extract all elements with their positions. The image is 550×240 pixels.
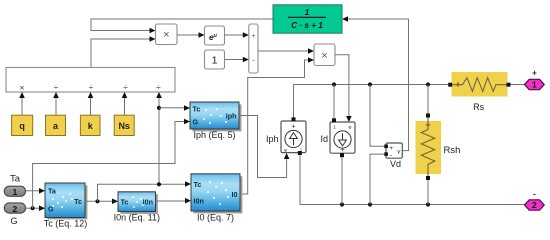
wire: k to divide port 3: [90, 98, 92, 116]
svg-text:÷: ÷: [89, 83, 94, 92]
top bus wire (positive node): [294, 85, 449, 118]
svg-text:Tc: Tc: [194, 180, 202, 189]
bottom bus wire (negative node): [300, 155, 525, 204]
label Tc (Eq. 12): [44, 219, 88, 229]
arrowhead into X1 input 2: [150, 36, 156, 42]
junction node Tc output: [95, 199, 99, 203]
input port 1 (Ta): [4, 186, 25, 197]
label Id: [320, 134, 328, 144]
arrowhead left into transfer function: [342, 16, 348, 22]
arrowhead into sum +: [243, 32, 249, 38]
wire: I0n output to I0 block I0n input: [156, 200, 186, 202]
svg-text:×: ×: [20, 82, 25, 92]
svg-text:I0n: I0n: [143, 198, 153, 207]
subsystem block I0n (Eq. 11): [118, 192, 158, 214]
controlled current source Id: [330, 118, 355, 157]
resistor block Rsh: [416, 114, 442, 181]
arrowhead up into divide port 2: [53, 92, 59, 98]
arrowhead up into divide port 5: [156, 92, 162, 98]
wire: Rsh bottom terminal down to bus: [427, 180, 429, 205]
svg-text:Rs: Rs: [473, 102, 484, 112]
wire: bus down to Id + terminal: [333, 85, 335, 119]
label I0 (Eq. 7): [197, 212, 234, 222]
label G: [10, 216, 17, 226]
product block X1: [156, 24, 178, 45]
svg-text:C · s + 1: C · s + 1: [291, 21, 323, 30]
svg-text:Rsh: Rsh: [444, 145, 461, 156]
sum block (+ -): [249, 24, 258, 73]
arrowhead into X1 input 1: [150, 28, 156, 34]
wire: sum output to product X2 input 1: [258, 50, 309, 52]
svg-text:1: 1: [212, 55, 218, 67]
svg-text:Iph (Eq. 5): Iph (Eq. 5): [193, 130, 235, 140]
arrowhead up into divide port 1: [19, 92, 25, 98]
arrowhead into Iph G input: [184, 119, 190, 125]
arrowhead up into Iph source signal port: [284, 153, 290, 159]
svg-text:2: 2: [532, 200, 537, 210]
svg-text:1: 1: [305, 7, 310, 17]
wire: Rs to output port 1: [511, 84, 525, 86]
wire: I0 block output up to product X2 input 2: [240, 60, 309, 194]
svg-text:+: +: [532, 69, 537, 78]
label Vd: [390, 159, 401, 169]
svg-text:1: 1: [13, 187, 18, 197]
arrowhead into sum -: [243, 57, 249, 63]
arrowhead into Tc G input: [39, 205, 45, 211]
arrowhead up into divide port 4: [122, 92, 128, 98]
svg-text:Tc: Tc: [193, 105, 201, 114]
svg-text:I0n: I0n: [194, 197, 204, 206]
svg-text:÷: ÷: [156, 83, 161, 92]
wire: bus down to Rsh top terminal: [427, 85, 429, 114]
subsystem block Tc (Eq. 12): [45, 183, 87, 219]
arrowhead into X2 input 2: [308, 57, 314, 63]
arrowhead down into Id signal port: [346, 116, 352, 122]
svg-text:+: +: [340, 147, 344, 154]
constant block q: [12, 115, 33, 135]
controlled current source Iph: [281, 117, 306, 155]
constant block a: [46, 115, 66, 135]
svg-text:2: 2: [13, 204, 18, 214]
arrowhead into X2 input 1: [308, 48, 314, 54]
wire: X2 output down to Id source signal input: [335, 55, 349, 117]
wire: a to divide port 2: [55, 98, 57, 116]
wire: bus down to Vd + input: [370, 85, 384, 147]
junction node Rsh bottom: [426, 202, 430, 206]
svg-text:×: ×: [163, 29, 169, 41]
svg-text:1: 1: [532, 80, 537, 90]
junction node Vd minus: [368, 202, 372, 206]
output port 1 (+): [525, 79, 545, 89]
wire: Id - terminal down to bus: [341, 157, 343, 204]
wire: exp to sum + input: [225, 34, 244, 36]
svg-text:I0: I0: [232, 190, 238, 199]
svg-text:Vd: Vd: [390, 159, 401, 169]
wire: Ns to divide port 4: [124, 98, 126, 116]
voltage sensor Vd: [384, 143, 402, 159]
junction node G: [30, 206, 34, 210]
input port 2 (G): [4, 203, 25, 214]
wire: Tc net vertical to divide port 5 and Iph Tc input: [158, 98, 160, 185]
wire: port 1 to Tc block Ta input: [26, 190, 40, 192]
wire: bus up to Vd - input: [370, 154, 384, 204]
svg-text:Ta: Ta: [48, 187, 57, 196]
wire: q to divide port 1: [21, 98, 23, 116]
product block X2: [314, 44, 335, 66]
math function block exp e^u: [205, 26, 225, 45]
junction node Id top: [332, 82, 336, 86]
wire: port 2 to Tc block G input: [26, 207, 40, 209]
svg-text:+: +: [389, 145, 393, 152]
svg-text:Tc: Tc: [74, 197, 82, 206]
label Iph (Eq. 5): [193, 130, 235, 140]
wire: constant 1 to sum - input: [225, 59, 244, 61]
label - (port 2): [533, 190, 536, 199]
wire: Vd output up and left into transfer function input: [348, 19, 409, 151]
junction node Vd plus: [368, 82, 372, 86]
svg-text:Tc (Eq. 12): Tc (Eq. 12): [44, 219, 88, 229]
junction node Tc net riser: [157, 182, 161, 186]
svg-text:I0n (Eq. 11): I0n (Eq. 11): [114, 212, 160, 222]
constant block Ns: [114, 115, 134, 135]
subsystem block I0 (Eq. 7): [191, 174, 242, 214]
svg-text:G: G: [10, 216, 17, 226]
arrowhead into Iph Tc input: [184, 105, 190, 111]
arrowhead into I0 Tc input: [185, 181, 191, 187]
junction node Rsh top: [426, 82, 430, 86]
label + (port 1): [532, 69, 537, 78]
svg-text:φ: φ: [349, 125, 352, 130]
svg-text:φ: φ: [284, 148, 287, 153]
junction node Tc to Iph: [157, 106, 161, 110]
svg-text:Iph: Iph: [226, 112, 237, 121]
arrowhead into Tc Ta input: [39, 188, 45, 194]
junction node Id bottom: [340, 202, 344, 206]
arrowhead into I0 I0n input: [185, 198, 191, 204]
label Rsh: [444, 145, 461, 156]
wire: X1 to exp block: [177, 34, 199, 36]
label I0n (Eq. 11): [114, 212, 160, 222]
arrowhead into exp block: [199, 32, 205, 38]
arrowhead into I0n Tc input: [112, 199, 118, 205]
wire: Tc net up and right to I0 block Tc input: [98, 184, 186, 201]
wire: Tc output to I0n input: [85, 200, 113, 202]
arrowhead up into divide port 3: [88, 92, 94, 98]
transfer function block 1/(C.s+1): [273, 5, 342, 33]
svg-text:I0 (Eq. 7): I0 (Eq. 7): [197, 212, 234, 222]
svg-text:Ns: Ns: [118, 121, 130, 131]
svg-text:+: +: [252, 33, 256, 40]
wire: Iph (Eq.5) output around to Iph source signal input: [239, 116, 287, 178]
svg-text:+: +: [292, 123, 296, 130]
resistor block Rs: [448, 72, 510, 97]
divide block (q/(a k Ns Tc)): [6, 68, 175, 93]
svg-text:Tc: Tc: [121, 198, 129, 207]
output port 2 (-): [525, 200, 545, 210]
constant block k: [80, 115, 100, 135]
svg-text:×: ×: [321, 50, 327, 62]
svg-text:G: G: [193, 118, 199, 127]
constant block 1: [205, 50, 225, 69]
subsystem block Iph (Eq. 5): [190, 102, 241, 131]
wire: Tc junction to Iph block Tc input: [159, 107, 185, 109]
svg-text:÷: ÷: [123, 83, 128, 92]
label Ta: [10, 174, 21, 185]
svg-text:÷: ÷: [54, 83, 59, 92]
wire: divide block output to product X1 input 2: [91, 39, 150, 68]
wire: G net up and right to Iph block G input: [33, 122, 185, 209]
svg-text:-: -: [533, 190, 536, 199]
svg-text:Ta: Ta: [10, 174, 21, 185]
label Iph (current source): [266, 134, 279, 144]
svg-text:Iph: Iph: [266, 134, 279, 144]
label Rs: [473, 102, 484, 112]
wire: green filter output to product X1 input 1: [91, 19, 273, 31]
svg-text:q: q: [19, 121, 25, 131]
svg-text:Id: Id: [320, 134, 328, 144]
